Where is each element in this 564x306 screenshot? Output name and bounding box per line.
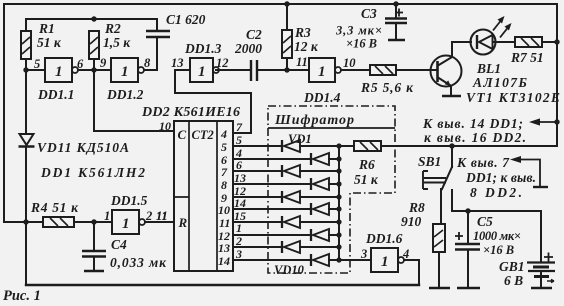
wire counter out row VD6 [233, 208, 309, 210]
ground bar at pin7-8 stub [533, 186, 548, 188]
wire counter out row VD7 [233, 221, 280, 223]
svg-text:14: 14 [234, 196, 246, 210]
wire C1 bottom riser [156, 31, 158, 37]
wire R4 to DD1.5 [74, 221, 112, 223]
svg-text:1: 1 [381, 254, 389, 270]
wire counter out row VD9 [233, 246, 280, 248]
svg-text:DD1.5: DD1.5 [110, 193, 148, 208]
wire C2 to DD1.4 in [257, 69, 309, 71]
transistor Q1 VT1 [431, 56, 462, 87]
ground bar at VT1 emitter [442, 95, 461, 98]
node C3 top rail [393, 1, 398, 6]
wire battery bottom [540, 277, 542, 287]
wire R8 bottom [438, 252, 440, 287]
svg-text:11: 11 [296, 55, 308, 69]
wire LED to R7 [493, 41, 515, 43]
svg-text:4: 4 [220, 127, 227, 141]
capacitor C5 [455, 232, 480, 250]
svg-text:1000 мк×: 1000 мк× [473, 229, 521, 243]
wire VD8 anode to bus [329, 234, 339, 236]
svg-text:×16 В: ×16 В [346, 37, 377, 51]
wire counter out row VD5 [233, 196, 280, 198]
node R3 bottom C2 [284, 67, 289, 72]
DD1.5 pin numbers [104, 209, 168, 223]
diode VD1 [282, 140, 300, 152]
wire DD1.2 out up to C1 [144, 37, 157, 70]
wire VD1 anode to bus [300, 145, 354, 147]
svg-text:АЛ107Б: АЛ107Б [472, 75, 527, 90]
svg-text:1: 1 [55, 64, 63, 80]
resistor R5 [370, 65, 396, 75]
ground bar at GB1 [531, 287, 552, 290]
svg-text:1: 1 [318, 64, 326, 80]
wire VD2 anode to bus [329, 158, 339, 160]
wire VT1 emitter down [450, 86, 452, 95]
svg-text:C5: C5 [477, 214, 493, 229]
svg-text:9: 9 [100, 56, 107, 70]
wire to battery plus [452, 210, 541, 212]
counter output stage numbers inside [218, 127, 230, 268]
push button SB1 [423, 171, 446, 189]
svg-text:C1 620: C1 620 [166, 12, 206, 27]
wire R6 row to right bus [381, 145, 557, 147]
LED BL1 [471, 16, 512, 55]
svg-text:13: 13 [218, 241, 230, 255]
svg-text:10: 10 [159, 119, 171, 133]
wire counter out row VD1 [233, 145, 280, 147]
svg-text:1: 1 [198, 64, 206, 80]
off-page arrow to DD1 pin14 DD2 pin16 [529, 118, 557, 125]
svg-text:11: 11 [219, 216, 230, 230]
wire C4 bottom [93, 257, 95, 270]
svg-text:GB1: GB1 [499, 259, 525, 274]
wire encoder anode bus [338, 146, 340, 260]
svg-text:1: 1 [122, 216, 130, 232]
node bus VD9 [336, 244, 341, 249]
wire C3 top [395, 4, 397, 17]
svg-text:VT1 КТ3102Е: VT1 КТ3102Е [466, 90, 560, 105]
wire rail y19 R1 R2 C1 [26, 19, 157, 31]
wire counter out pin7 row [233, 132, 251, 134]
svg-text:R4 51 к: R4 51 к [30, 200, 79, 215]
wire DD1.5 out to counter R input [145, 221, 174, 223]
wire node B down to counter C input [94, 70, 174, 131]
wire counter out row VD10 [233, 259, 309, 261]
svg-text:8: 8 [144, 56, 151, 70]
svg-text:Шифратор: Шифратор [274, 113, 354, 128]
node bus VD5 [336, 194, 341, 199]
inverter DD1.2 [111, 58, 144, 82]
wire VD9 anode to bus [300, 246, 339, 248]
wire VD10 anode to DD1.6 in [329, 259, 371, 261]
node R2 bottom DD1.1 out [91, 67, 96, 72]
ground bar at R8 [429, 287, 450, 290]
ground bar at C5 [457, 287, 480, 290]
svg-text:SB1: SB1 [418, 154, 441, 169]
inverter DD1.3 [190, 58, 219, 82]
svg-text:6 В: 6 В [504, 273, 523, 288]
diode VD5 [282, 191, 300, 203]
svg-text:11: 11 [156, 209, 168, 223]
svg-text:Рис. 1: Рис. 1 [3, 288, 41, 304]
diode VD3 [282, 165, 300, 177]
wire C3 bottom [395, 24, 397, 39]
svg-text:6: 6 [236, 158, 242, 172]
DD1.6 pin numbers [360, 247, 409, 261]
svg-text:5: 5 [221, 140, 227, 154]
svg-text:DD1.1: DD1.1 [37, 87, 74, 102]
diode VD4 [311, 178, 329, 190]
wire counter out row VD4 [233, 183, 309, 185]
svg-text:DD1 К561ЛН2: DD1 К561ЛН2 [40, 165, 145, 180]
node R7 right bus [554, 39, 559, 44]
capacitor C2 [251, 60, 257, 81]
diode VD6 [311, 203, 329, 215]
wire bottom return rail [26, 284, 419, 286]
svg-text:R6: R6 [358, 157, 375, 172]
svg-text:3: 3 [360, 247, 367, 261]
svg-text:51 к: 51 к [37, 35, 62, 50]
wire R6 left [339, 145, 354, 147]
svg-text:2: 2 [235, 234, 242, 248]
resistor R2 [89, 31, 99, 59]
encoder dash-dot border box [268, 106, 395, 273]
svg-text:к выв. 16 DD2.: к выв. 16 DD2. [424, 130, 526, 145]
svg-text:7: 7 [236, 120, 243, 134]
wire top supply rail [4, 3, 557, 5]
svg-text:13: 13 [171, 56, 184, 70]
svg-text:C: C [178, 127, 187, 142]
node bus VD3 [336, 168, 341, 173]
ground bar at C4 [84, 270, 104, 273]
inverter DD1.6 [371, 248, 404, 272]
svg-text:R3: R3 [294, 25, 311, 40]
svg-text:3: 3 [235, 247, 242, 261]
node bus VD2 [336, 156, 341, 161]
svg-text:C4: C4 [111, 237, 127, 252]
svg-text:R2: R2 [104, 21, 121, 36]
resistor R4 [43, 217, 74, 227]
capacitor C3 [385, 9, 407, 24]
svg-text:6: 6 [77, 57, 84, 71]
wire R5 to VT1 base [396, 69, 437, 71]
node bus VD6 [336, 206, 341, 211]
svg-text:R7 51: R7 51 [510, 50, 544, 65]
node bus VD10 [336, 257, 341, 262]
wire VD5 anode to bus [300, 196, 339, 198]
node bus VD7 [336, 219, 341, 224]
node bus VD4 [336, 181, 341, 186]
diode VD8 [311, 229, 329, 241]
node rail-R2 top [91, 16, 96, 21]
svg-text:VD11 КД510А: VD11 КД510А [37, 140, 129, 155]
node SB1 top [449, 143, 454, 148]
wire battery top [540, 211, 542, 262]
wire DD1.3 in feedback [175, 70, 251, 133]
wire VD3 anode to bus [300, 170, 339, 172]
node arrow stub bus [554, 119, 559, 124]
wire right bus vertical [556, 4, 558, 146]
wire left outer vertical [3, 4, 5, 222]
wire DD1.4 out to R5 [341, 69, 370, 71]
resistor R3 [282, 30, 292, 58]
resistor R1 [21, 31, 31, 59]
inverter DD1.1 [45, 58, 78, 82]
resistor R7 [515, 37, 542, 47]
battery GB1 [527, 253, 555, 283]
svg-text:C3: C3 [361, 6, 377, 21]
wire R3 bottom [286, 58, 288, 70]
svg-text:CT2: CT2 [192, 128, 214, 142]
inverter DD1.5 [112, 210, 145, 234]
svg-text:10: 10 [218, 203, 230, 217]
resistor R8 [433, 224, 445, 252]
wire SB1 lower terminal [451, 190, 453, 210]
svg-text:C2: C2 [246, 27, 262, 42]
wire SB1 top terminal [451, 146, 453, 167]
svg-text:DD1.6: DD1.6 [365, 231, 403, 246]
wire battery mid stem [540, 271, 542, 276]
node C5 battery [465, 208, 470, 213]
node R1 bottom DD1.1 input [23, 67, 28, 72]
wire left outer to R4 [4, 221, 43, 223]
svg-text:К выв. 7: К выв. 7 [456, 155, 510, 170]
svg-text:DD1.3: DD1.3 [184, 41, 222, 56]
diode VD7 [282, 216, 300, 228]
svg-text:3,3 мк×: 3,3 мк× [335, 24, 382, 38]
svg-text:VD1: VD1 [288, 132, 312, 146]
diode VD9 [282, 241, 300, 253]
svg-text:910: 910 [401, 214, 422, 229]
svg-text:12: 12 [216, 56, 229, 70]
svg-text:5: 5 [34, 57, 40, 71]
svg-text:1: 1 [104, 209, 110, 223]
svg-text:R1: R1 [38, 21, 55, 36]
diode VD10 [311, 254, 329, 266]
svg-text:BL1: BL1 [476, 61, 501, 76]
wire counter out row VD3 [233, 170, 280, 172]
svg-text:4: 4 [402, 247, 409, 261]
svg-text:R5 5,6 к: R5 5,6 к [360, 80, 414, 95]
wire C4 riser [93, 222, 95, 250]
wire VD6 anode to bus [329, 208, 339, 210]
svg-text:7: 7 [221, 165, 228, 179]
svg-text:2000: 2000 [234, 41, 262, 56]
inverter DD1.4 [309, 58, 341, 82]
svg-text:DD1; к выв.: DD1; к выв. [465, 170, 536, 185]
wire VD11 branch vertical [25, 148, 27, 285]
wire C5 top [467, 211, 469, 243]
svg-text:0,033 мк: 0,033 мк [110, 255, 167, 270]
svg-text:13: 13 [234, 171, 246, 185]
counter pin numbers outside [234, 120, 246, 261]
wire DD1.1 out to DD1.2 in [78, 59, 111, 70]
capacitor C4 [82, 251, 106, 257]
svg-text:5: 5 [236, 133, 242, 147]
svg-text:1,5 к: 1,5 к [103, 35, 131, 50]
svg-text:×16 В: ×16 В [483, 243, 514, 257]
ground bar at C3 [388, 39, 405, 42]
diode VD11 [19, 134, 35, 147]
node bus VD8 [336, 232, 341, 237]
counter DD2 K561IE16 [174, 121, 233, 271]
off-page arrow to DD1 pin7 DD2 pin8 [510, 156, 540, 186]
svg-text:R8: R8 [408, 200, 425, 215]
svg-text:51 к: 51 к [354, 172, 379, 187]
svg-text:14: 14 [218, 254, 230, 268]
svg-text:DD1.2: DD1.2 [106, 87, 144, 102]
wire SB1 moving contact [442, 167, 452, 189]
svg-text:2: 2 [145, 209, 152, 223]
node R4 C4 DD1.5 [91, 219, 96, 224]
wire counter out row VD2 [233, 158, 309, 160]
wire DD1.6 output loop [404, 260, 419, 285]
wire SB1 to R8 [440, 189, 442, 224]
svg-text:R: R [178, 215, 188, 230]
svg-text:12 к: 12 к [294, 39, 319, 54]
encoder title underline [268, 127, 395, 129]
node bus VD1 [336, 143, 341, 148]
resistor R6 [354, 141, 381, 151]
wire R3 top [286, 4, 288, 30]
diode VD2 [311, 153, 329, 165]
node R3 top rail [284, 1, 289, 6]
svg-text:1: 1 [236, 221, 242, 235]
svg-text:1: 1 [121, 64, 129, 80]
wire R7 to right bus [542, 41, 557, 43]
wire DD1.3 out to C2 [216, 69, 251, 71]
svg-text:К выв. 14 DD1;: К выв. 14 DD1; [422, 116, 523, 131]
wire VT1 collector up to LED [452, 42, 471, 57]
svg-text:8: 8 [221, 178, 227, 192]
gate pin numbers [34, 55, 308, 71]
svg-text:DD2 К561ИЕ16: DD2 К561ИЕ16 [141, 105, 240, 120]
node VD11 R4 crossing [23, 219, 28, 224]
svg-text:DD1.4: DD1.4 [303, 90, 341, 105]
svg-text:VD10: VD10 [274, 263, 305, 277]
wire node A row y70 left [26, 59, 45, 132]
svg-text:10: 10 [343, 56, 356, 70]
wire VD4 anode to bus [329, 183, 339, 185]
wire C5 bottom [467, 250, 469, 287]
wire counter out row VD8 [233, 234, 309, 236]
capacitor C1 [146, 31, 170, 37]
wire VD7 anode to bus [300, 221, 339, 223]
